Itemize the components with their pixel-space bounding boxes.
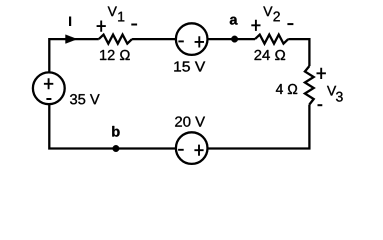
label V3 subscript 3 bbox=[336, 92, 343, 102]
node label b bbox=[112, 126, 119, 137]
current arrow I on top-left wire bbox=[66, 35, 78, 44]
current label I bbox=[69, 17, 71, 27]
wire: R3 to bottom-right corner, along bottom to 20V source bbox=[207, 105, 309, 149]
node label a bbox=[230, 17, 238, 25]
plus sign of V3 bbox=[317, 68, 326, 79]
label V1 subscript 1 bbox=[118, 12, 124, 22]
voltage source 35 V circle bbox=[33, 72, 65, 104]
label V2 subscript 2 bbox=[274, 12, 280, 22]
value label 20 V bbox=[175, 117, 205, 127]
value label 24 ohm bbox=[255, 50, 286, 60]
node b junction dot bbox=[113, 145, 120, 152]
resistor R1 (12 ohm) zigzag bbox=[99, 35, 132, 44]
minus sign of V3 bbox=[318, 104, 323, 106]
minus sign of V2 bbox=[287, 23, 293, 25]
value label 4 ohm bbox=[276, 84, 297, 94]
plus sign inside 35V source bbox=[44, 78, 53, 89]
plus sign of V2 bbox=[251, 20, 260, 31]
voltage source 20 V circle bbox=[176, 132, 208, 164]
label V3 letter V bbox=[327, 86, 336, 96]
label V1 letter V bbox=[108, 7, 117, 17]
voltage source 15 V circle bbox=[176, 23, 208, 55]
wire: R2 to top-right corner, down to R3 bbox=[288, 39, 309, 66]
resistor R2 (24 ohm) zigzag bbox=[255, 35, 288, 44]
plus sign inside 15V source bbox=[195, 36, 204, 47]
minus sign inside 35V source bbox=[46, 98, 51, 100]
node a junction dot bbox=[231, 36, 238, 43]
value label 12 ohm bbox=[100, 50, 130, 60]
plus sign of V1 bbox=[97, 21, 106, 32]
plus sign inside 20V source bbox=[194, 145, 203, 156]
minus sign inside 15V source bbox=[178, 40, 183, 42]
wire: left vertical upper segment and top wire to R1 bbox=[49, 39, 99, 73]
label V2 letter V bbox=[263, 7, 272, 17]
minus sign inside 20V source bbox=[178, 149, 184, 151]
wire: 20V source through node b to bottom-left corner, up to 35V source bbox=[49, 104, 176, 148]
wire: 15V source through node a to R2 bbox=[207, 38, 255, 40]
resistor R3 (4 ohm) vertical zigzag bbox=[305, 66, 314, 105]
value label 35 V bbox=[70, 94, 100, 104]
wire: R1 to 15V source bbox=[132, 38, 176, 40]
value label 15 V bbox=[174, 62, 205, 72]
minus sign of V1 bbox=[131, 24, 137, 26]
